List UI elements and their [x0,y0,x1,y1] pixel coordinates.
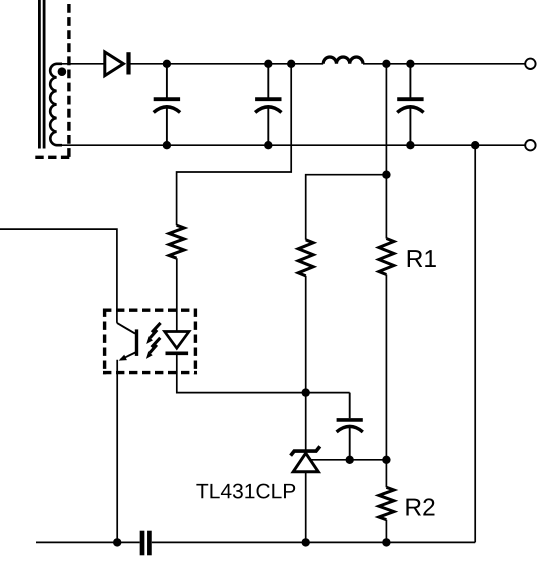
resistor R1 [379,239,394,275]
inductor L1 [323,57,363,64]
wire bottom rail [57,144,526,146]
optocoupler LED cathode bar [166,351,189,355]
wire feedback input from left edge [0,229,117,323]
optocoupler light arrow 1 [146,323,160,344]
wire R1 top lead [385,175,387,239]
wire R2 bottom lead [385,520,387,543]
optocoupler emitter arrowhead [119,355,127,361]
wire right return (output - to bottom rail) [474,145,476,542]
optocoupler phototransistor bar [135,329,138,356]
output terminal + [525,59,535,69]
resistor R4 (bias) [298,240,313,276]
TL431 U2 cathode bar [291,446,320,455]
wire top rail (diode to inductor) [129,63,324,65]
optocoupler phototransistor emitter [120,352,136,360]
optocoupler emitter wire to bottom rail [116,360,118,543]
optocoupler LED triangle [165,332,189,349]
wire from post-inductor node down to jog junction [385,64,387,175]
compensation capacitor C4 [337,393,363,460]
node dot R2-rail [382,538,390,546]
resistor R2 [379,487,394,519]
transformer T1 secondary winding [50,64,62,145]
wire top rail (inductor to + terminal) [363,63,525,65]
node dot C1 bottom [163,141,171,149]
capacitor C3 [397,64,423,145]
wire from pre-inductor node down and jog left [177,64,292,225]
wire R4 to TL431 cathode node [305,276,307,393]
node dot TL431 cathode [302,388,310,396]
capacitor C1 [154,64,180,145]
optocoupler LED cathode wire [177,353,350,392]
node dot ref divider [382,456,390,464]
wire R1 bottom to ref node [385,275,387,460]
node dot C2 top [264,60,272,68]
label TL431CLP [196,484,295,499]
transformer T1 core [39,0,44,149]
node dot C3 top [406,60,414,68]
optocoupler U1 dashed box [103,309,197,375]
node dot right return top [471,141,479,149]
wire R2 top lead [385,460,387,488]
label R1 [408,250,436,267]
capacitor C5 (series) [142,531,149,556]
TL431 U2 triangle [293,453,318,472]
optocoupler light arrow 2 [146,338,160,359]
wire cathode node to TL431 [305,393,307,452]
node dot post-inductor [382,60,390,68]
node dot pre-inductor [287,60,295,68]
TL431 reference wire [311,459,386,461]
node dot C2 bottom [264,141,272,149]
output terminal - [525,140,535,150]
wire top rail left (winding to diode) [57,63,104,65]
transformer polarity dot [58,67,67,76]
wire bottom rail right [152,541,475,543]
capacitor C2 [255,64,281,145]
node dot TL431 anode-rail [302,538,310,546]
node dot C3 bottom [406,141,414,149]
TL431 anode wire [305,472,307,543]
wire jog to R4 [306,175,387,240]
transformer dashed boundary (bottom side) [35,156,71,159]
optocoupler phototransistor collector [117,323,135,334]
resistor R3 (opto LED series) [169,225,184,258]
node dot emitter-rail [113,538,121,546]
wire resistor R3 to LED anode [176,258,178,331]
transformer dashed boundary (right side) [67,4,70,158]
node dot jog junction [382,171,390,179]
label R2 [406,498,434,515]
wire bottom rail left [36,541,140,543]
node dot C4 bottom [346,456,354,464]
diode D1 [105,52,129,76]
node dot C1 top [163,60,171,68]
